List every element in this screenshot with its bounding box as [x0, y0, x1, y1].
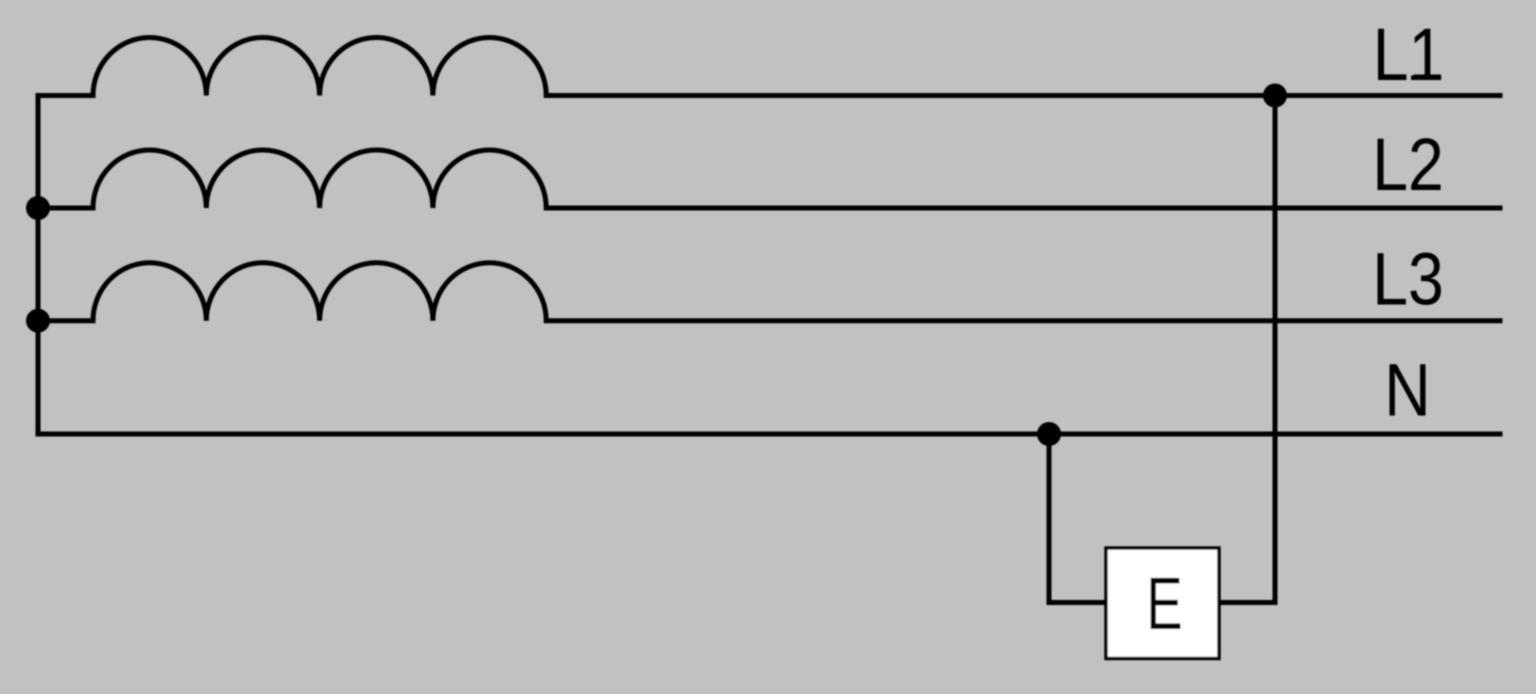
svg-text:L1: L1 [1373, 13, 1445, 96]
svg-text:L2: L2 [1372, 123, 1444, 206]
svg-text:N: N [1384, 348, 1430, 431]
svg-text:L3: L3 [1372, 237, 1444, 320]
svg-text:E: E [1146, 562, 1183, 645]
